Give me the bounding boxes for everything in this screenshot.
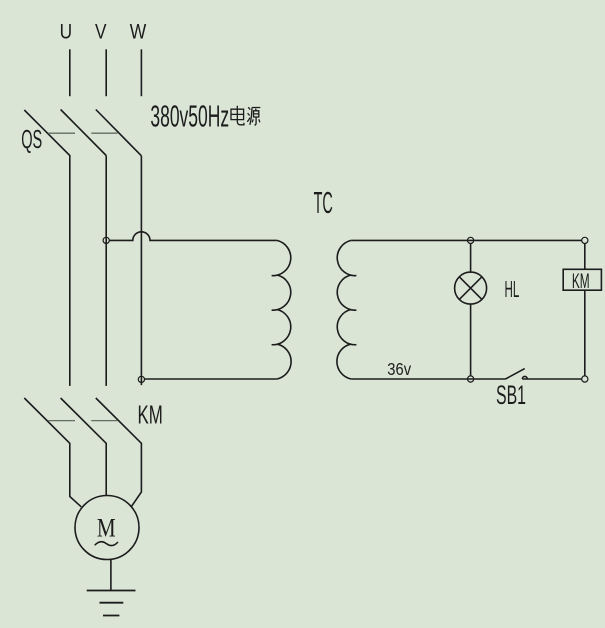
wire W supply [140,49,142,96]
contactor KM pole 3 [96,398,142,507]
wire W phase to KM [140,156,142,385]
contactor KM label [138,399,163,429]
svg-text:HL: HL [505,276,520,302]
switch SB1 contact [522,376,527,379]
wire V phase to KM [105,156,107,386]
contactor KM pole 2 [61,398,107,496]
switch SB1 label [496,380,526,410]
contactor KM pole 1 [24,398,81,507]
wire primary bottom [144,378,277,380]
wire HL branch lower [470,304,472,376]
node W label [130,21,147,44]
svg-text:SB1: SB1 [496,380,526,410]
wire KM coil branch lower [584,290,586,376]
switch QS linkage bar [48,132,117,134]
motor M1 [75,496,139,560]
wire V supply [105,49,107,96]
wire SB1 to KM branch [522,378,582,380]
transformer TC label [314,186,333,220]
node W tap [138,376,144,382]
switch QS label [21,126,42,154]
svg-text:W: W [130,21,147,44]
node V label [95,21,107,44]
transformer TC primary winding [272,240,292,379]
node KM branch bottom [582,376,588,382]
wire secondary top [351,239,582,241]
svg-text:36v: 36v [387,359,411,379]
node KM branch top [582,237,588,243]
wire primary top with hop over W [110,232,277,241]
switch QS pole 1 [24,110,70,386]
switch QS pole 2 [61,110,107,156]
svg-text:QS: QS [21,126,42,154]
lamp HL [455,272,487,304]
switch QS pole 3 [96,110,142,156]
glyph yuan [247,107,260,125]
node V tap [103,237,109,243]
label 380v50Hz power [150,98,260,133]
node HL bottom [468,376,474,382]
svg-text:U: U [60,21,73,44]
svg-text:KM: KM [138,399,163,429]
lamp HL label [505,276,520,302]
svg-text:V: V [95,21,107,44]
node HL top [468,237,474,243]
glyph dian [231,106,244,125]
wire KM coil branch upper [584,243,586,269]
transformer TC secondary winding [337,240,357,379]
label 36v [387,359,411,379]
svg-text:M: M [97,513,116,543]
wire HL branch upper [470,243,472,272]
contactor KM linkage bar [48,420,117,422]
wire U supply [69,49,71,96]
ground [87,591,136,616]
coil KM [563,269,601,293]
svg-text:KM: KM [572,269,590,293]
switch SB1 blade [506,369,525,379]
wire secondary bottom left [351,378,505,380]
wire motor to ground [110,559,112,590]
svg-text:380v50Hz: 380v50Hz [150,98,229,133]
node U label [60,21,73,44]
svg-text:TC: TC [314,186,333,220]
